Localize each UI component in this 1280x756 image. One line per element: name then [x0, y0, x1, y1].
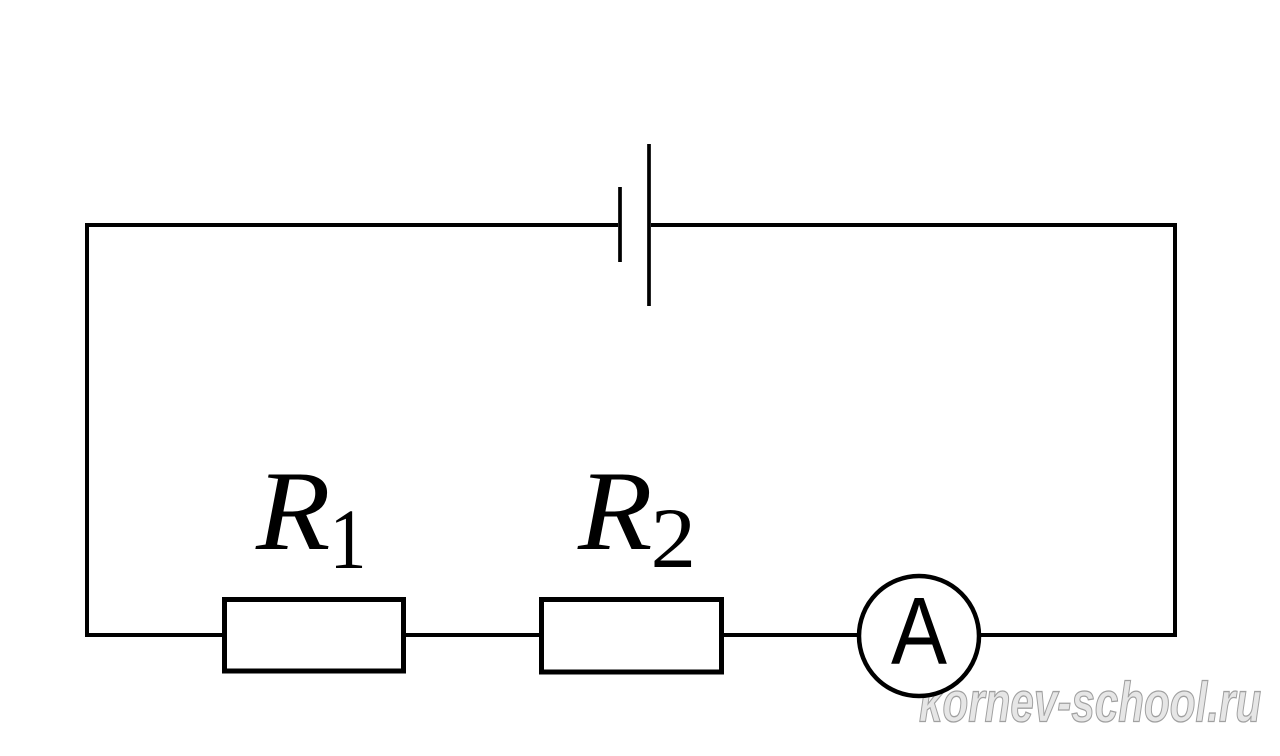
ammeter A letter [891, 578, 947, 685]
battery cell: short negative plate [618, 187, 622, 262]
ammeter A circle [859, 576, 979, 696]
wire: between R2 and ammeter A [722, 633, 861, 637]
wire: left loop (top-left, left side, bottom-left to R1) [87, 225, 618, 635]
wire: between R1 and R2 [404, 633, 542, 637]
label R2 [577, 449, 696, 586]
svg-text:R: R [577, 449, 653, 574]
watermark kornev-school.ru [919, 670, 1261, 734]
svg-text:R: R [255, 449, 331, 574]
svg-text:kornev-school.ru: kornev-school.ru [919, 670, 1261, 734]
svg-text:2: 2 [651, 491, 697, 586]
resistor R1 box [225, 600, 404, 672]
resistor R2 box [542, 600, 722, 673]
wire: right loop (battery to top-right, right side, bottom-right to ammeter) [651, 225, 1175, 635]
battery cell: long positive plate [647, 144, 651, 306]
svg-text:1: 1 [330, 493, 367, 587]
svg-text:A: A [891, 578, 947, 685]
label R1 [255, 449, 367, 587]
